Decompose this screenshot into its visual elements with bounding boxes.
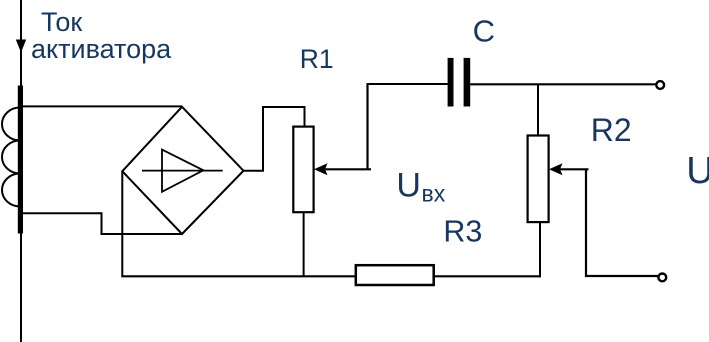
R1 top lead to bridge right corner	[244, 107, 305, 171]
resistor R3 body	[356, 265, 434, 285]
bridge rectifier diamond	[122, 107, 243, 234]
R1 wiper arrow	[314, 163, 328, 175]
transformer core bar	[18, 86, 23, 234]
svg-text:C: C	[473, 13, 495, 48]
wire: bridge left corner down to bottom bus	[121, 171, 123, 276]
capacitor C plates	[448, 58, 454, 107]
svg-text:U: U	[686, 150, 709, 192]
svg-text:R1: R1	[300, 44, 334, 74]
wire: R2 wiper down to bottom terminal	[586, 169, 658, 276]
wire: to capacitor left plate	[367, 83, 448, 85]
wire: capacitor right plate to top terminal	[470, 83, 656, 85]
potentiometer R1 body	[293, 127, 313, 213]
svg-text:вх: вх	[422, 181, 446, 207]
wire: R1 wiper up to capacitor node	[366, 84, 368, 169]
wire: activator current input line (left vertical)	[20, 0, 22, 342]
svg-text:R2: R2	[591, 112, 632, 148]
current direction arrow (down)	[16, 40, 26, 53]
wire: bottom bus right segment	[434, 275, 540, 277]
potentiometer R2 body	[528, 136, 549, 223]
svg-text:Ток: Ток	[41, 7, 82, 37]
R2 bottom lead	[539, 222, 541, 277]
diode/amplifier symbol inside bridge	[162, 150, 203, 192]
R2 top lead	[537, 84, 539, 135]
R1 bottom lead	[303, 212, 305, 276]
svg-text:активатора: активатора	[31, 34, 172, 64]
svg-text:U: U	[396, 167, 421, 205]
output terminal top (open circle)	[656, 81, 664, 89]
R2 wiper arrow	[549, 163, 563, 175]
wire: bottom bus left segment	[121, 275, 355, 277]
wire: coil bottom step to bridge bottom	[21, 213, 182, 234]
output terminal bottom (open circle)	[658, 274, 666, 282]
svg-text:R3: R3	[443, 215, 482, 249]
inductor winding (3 arcs)	[2, 108, 20, 207]
wire: coil top to bridge top	[21, 105, 182, 107]
